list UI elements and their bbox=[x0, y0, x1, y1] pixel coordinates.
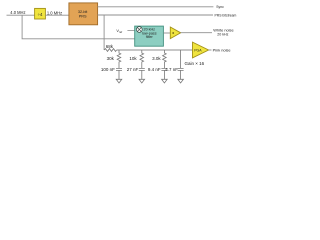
capacitor 100 nF bbox=[101, 67, 122, 79]
resistor 68k bbox=[104, 44, 117, 51]
svg-text:30k: 30k bbox=[107, 56, 115, 61]
wire PRS bitstream branch down to ladder bbox=[103, 15, 105, 50]
svg-text:1.0 MHz: 1.0 MHz bbox=[47, 10, 62, 15]
summer Vref junction bbox=[136, 27, 142, 33]
ground branch1 bbox=[116, 79, 122, 83]
svg-text:10k: 10k bbox=[129, 56, 137, 61]
ground branch4 bbox=[178, 79, 184, 83]
wire filter to buffer bbox=[163, 32, 170, 34]
wire 4.0 MHz input bbox=[7, 14, 35, 16]
svg-text:Gain × 16: Gain × 16 bbox=[185, 61, 205, 66]
svg-text:Sync: Sync bbox=[216, 5, 224, 9]
resistor 30k bbox=[107, 50, 121, 68]
wire Sync output bbox=[98, 6, 214, 8]
resistor 3.0k bbox=[152, 50, 166, 68]
svg-text:÷4: ÷4 bbox=[38, 12, 43, 17]
svg-text:3.0k: 3.0k bbox=[152, 56, 161, 61]
low-pass filter 20 kHz bbox=[135, 26, 164, 46]
wire PRS bitstream output bbox=[98, 14, 213, 16]
op-amp buffer bbox=[170, 27, 180, 39]
wire pink noise output bbox=[209, 49, 212, 51]
capacitor 4.7 nF bbox=[165, 50, 183, 79]
wire Vref to summer bbox=[127, 29, 136, 31]
svg-text:PGA: PGA bbox=[194, 48, 202, 52]
svg-text:32-bit: 32-bit bbox=[78, 10, 88, 14]
svg-text:9.4 nF: 9.4 nF bbox=[148, 67, 161, 72]
wire white noise output bbox=[181, 32, 212, 34]
wire ladder rail bbox=[117, 49, 193, 51]
svg-text:filter: filter bbox=[146, 35, 154, 39]
capacitor 27 nF bbox=[127, 67, 145, 79]
ground branch3 bbox=[162, 79, 168, 83]
wire 1.0 MHz bbox=[45, 14, 69, 16]
svg-text:PRS bitstream: PRS bitstream bbox=[215, 14, 237, 18]
svg-text:Pink noise: Pink noise bbox=[213, 48, 231, 53]
resistor 10k bbox=[129, 50, 143, 68]
op-amp PGA bbox=[193, 42, 209, 58]
svg-text:27 nF: 27 nF bbox=[127, 67, 139, 72]
divider U1 ÷4 bbox=[35, 8, 46, 19]
svg-text:100 nF: 100 nF bbox=[101, 67, 115, 72]
svg-text:20 kHz: 20 kHz bbox=[217, 32, 228, 36]
ground branch2 bbox=[139, 79, 145, 83]
capacitor 9.4 nF bbox=[148, 67, 168, 79]
wire clock branch down and right to filter bbox=[22, 15, 135, 39]
PRS generator 32-bit PRS bbox=[69, 3, 98, 25]
svg-text:PRS: PRS bbox=[79, 14, 87, 18]
svg-text:4.7 nF: 4.7 nF bbox=[165, 67, 178, 72]
svg-text:4.0 MHz: 4.0 MHz bbox=[10, 10, 25, 15]
